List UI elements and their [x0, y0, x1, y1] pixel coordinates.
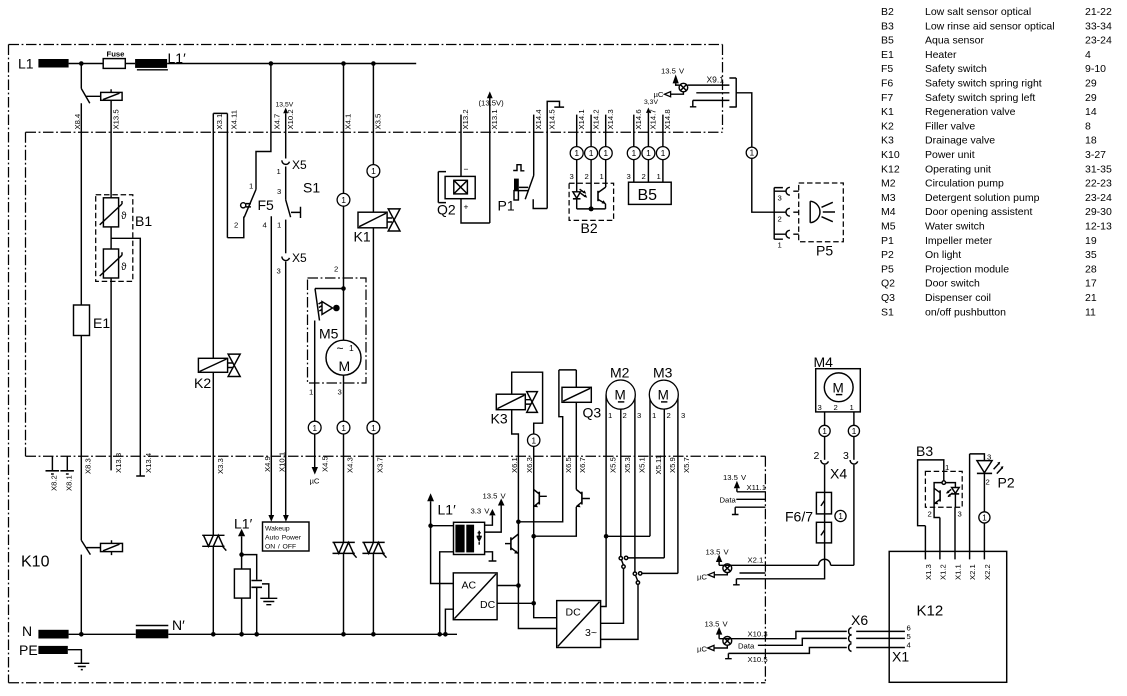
svg-text:P1: P1 — [498, 198, 515, 214]
changeover contact 1 — [619, 557, 622, 560]
LED in B2 — [573, 192, 581, 198]
svg-text:3: 3 — [277, 187, 281, 196]
svg-text:X10.2: X10.2 — [286, 109, 295, 129]
svg-text:1: 1 — [589, 148, 594, 158]
svg-text:1: 1 — [778, 241, 782, 250]
optical sensor B2 box — [569, 183, 614, 220]
K12 pin wires — [925, 454, 984, 560]
svg-text:23-24: 23-24 — [1085, 192, 1112, 204]
svg-text:3: 3 — [681, 411, 685, 420]
transformer L1' feed — [427, 493, 434, 501]
svg-text:3: 3 — [277, 267, 281, 276]
capacitor pair to ground — [239, 552, 244, 557]
svg-text:X13.2: X13.2 — [461, 109, 470, 129]
svg-text:X2.2: X2.2 — [983, 564, 992, 580]
svg-text:K12: K12 — [917, 603, 944, 620]
svg-text:M5: M5 — [319, 326, 339, 342]
svg-text:Impeller meter: Impeller meter — [925, 235, 993, 247]
svg-text:1: 1 — [349, 343, 354, 353]
junction dots on N rail — [79, 632, 84, 637]
svg-text:M: M — [833, 380, 844, 395]
svg-text:P2: P2 — [998, 475, 1015, 491]
junction dot M5 — [341, 286, 346, 291]
wire inverter output V — [601, 568, 624, 623]
svg-text:Water switch: Water switch — [925, 221, 985, 233]
node X3.1 X4.11 loop — [213, 113, 227, 358]
svg-text:X5: X5 — [292, 251, 307, 265]
optical sensor B2 columns — [577, 115, 606, 209]
svg-text:2: 2 — [986, 478, 990, 487]
connector pin mark P2 — [979, 512, 990, 523]
reference table — [881, 6, 1112, 318]
svg-text:1: 1 — [312, 423, 317, 433]
B3 LED — [952, 488, 960, 494]
filler valve coil K2 — [198, 358, 227, 372]
connector pin mark M5 pin3 — [337, 421, 350, 434]
svg-text:L1′: L1′ — [234, 516, 253, 532]
svg-text:X2.1: X2.1 — [968, 564, 977, 580]
svg-text:P2: P2 — [881, 249, 894, 261]
connector pin mark M4 right — [848, 425, 859, 436]
node 13.5 V output arrow — [485, 506, 502, 533]
svg-text:X5.3: X5.3 — [623, 457, 632, 473]
svg-text:Regeneration valve: Regeneration valve — [925, 106, 1016, 118]
svg-text:X6.7: X6.7 — [578, 457, 587, 473]
svg-text:Q3: Q3 — [583, 405, 602, 421]
svg-text:on/off pushbutton: on/off pushbutton — [925, 306, 1006, 318]
svg-text:3: 3 — [637, 411, 641, 420]
svg-text:−: − — [464, 164, 469, 174]
svg-text:X14.1: X14.1 — [577, 109, 586, 129]
K10 inner border horizontal upper — [26, 131, 723, 133]
svg-text:M3: M3 — [881, 192, 896, 204]
wire E1 to relay contact — [80, 336, 82, 541]
svg-text:N′: N′ — [172, 617, 185, 633]
connector pin mark X3.7 column — [367, 421, 380, 434]
svg-text:1: 1 — [277, 221, 281, 230]
terminal X8.2 — [51, 456, 53, 470]
svg-text:13.5 V: 13.5 V — [706, 548, 730, 557]
junction dot X6.1/ACDC — [516, 583, 521, 588]
B3 dashed box — [925, 471, 962, 507]
svg-text:2: 2 — [814, 450, 820, 462]
svg-text:14: 14 — [1085, 106, 1097, 118]
svg-text:3: 3 — [338, 388, 342, 397]
P5 pin 1 — [774, 233, 799, 235]
B3 phototransistor — [939, 490, 941, 501]
svg-text:L1′: L1′ — [168, 50, 187, 66]
breaker contact top (thermal cutout) — [81, 64, 100, 104]
svg-text:B3: B3 — [916, 443, 933, 459]
svg-text:21: 21 — [1085, 292, 1097, 304]
svg-text:(13.5V): (13.5V) — [479, 99, 505, 108]
svg-text:M4: M4 — [814, 354, 834, 370]
svg-text:X3.1: X3.1 — [215, 114, 224, 130]
svg-text:Q2: Q2 — [881, 278, 895, 290]
wire stub line at boundary — [740, 572, 766, 574]
svg-text:On light: On light — [925, 249, 961, 261]
svg-text:35: 35 — [1085, 249, 1097, 261]
wire B1 bottom to X13.3 — [110, 278, 112, 470]
svg-text:X3.5: X3.5 — [374, 114, 383, 130]
svg-text:X11.1: X11.1 — [747, 483, 767, 492]
svg-text:X5.5: X5.5 — [609, 457, 618, 473]
fuse F — [103, 59, 125, 69]
svg-text:X14.2: X14.2 — [592, 109, 601, 129]
svg-text:Safety switch spring left: Safety switch spring left — [925, 92, 1035, 104]
svg-text:Wakeup: Wakeup — [265, 526, 290, 533]
svg-text:X14.5: X14.5 — [548, 109, 557, 129]
svg-text:13.5 V: 13.5 V — [483, 492, 507, 501]
junction dot X6.3/Q3 right — [531, 534, 536, 539]
P2 emission arrows — [994, 463, 1003, 473]
junction dot X6.3/ACDC bottom — [531, 601, 536, 606]
svg-text:M2: M2 — [610, 365, 630, 381]
svg-text:12-13: 12-13 — [1085, 221, 1112, 233]
svg-text:µC: µC — [654, 90, 664, 99]
transistor T2 — [538, 492, 540, 505]
svg-text:X4.3: X4.3 — [346, 457, 355, 473]
svg-text:13.5 V: 13.5 V — [661, 67, 685, 76]
svg-text:3: 3 — [627, 172, 631, 181]
svg-text:L1′: L1′ — [438, 502, 457, 518]
svg-text:Door opening assistent: Door opening assistent — [925, 206, 1032, 218]
svg-text:X4.1: X4.1 — [344, 114, 353, 130]
wire X4 pin3 down — [853, 465, 855, 566]
svg-text:B3: B3 — [881, 20, 894, 32]
svg-text:N: N — [22, 623, 32, 639]
B3 pin1 loop — [918, 460, 944, 526]
svg-text:9-10: 9-10 — [1085, 63, 1106, 75]
svg-text:K1: K1 — [881, 106, 894, 118]
svg-text:2: 2 — [585, 172, 589, 181]
svg-text:1: 1 — [341, 423, 346, 433]
transformer power supply — [454, 522, 485, 554]
svg-text:Safety switch spring right: Safety switch spring right — [925, 78, 1042, 90]
wire transformer input — [431, 525, 454, 527]
wire Q2 loop to X13.1 — [461, 199, 490, 223]
svg-text:4: 4 — [1085, 49, 1091, 61]
svg-text:K2: K2 — [881, 120, 894, 132]
svg-text:AC: AC — [462, 580, 477, 592]
svg-text:ϑ: ϑ — [121, 262, 127, 273]
svg-text:X5.7: X5.7 — [682, 457, 691, 473]
svg-text:M: M — [658, 388, 669, 403]
svg-text:X4: X4 — [830, 466, 847, 482]
svg-text:X6: X6 — [851, 612, 868, 628]
connector pin mark on X3.5 column — [367, 165, 380, 178]
svg-text:M4: M4 — [881, 206, 896, 218]
svg-text:P5: P5 — [816, 243, 833, 259]
node 3.3 V output arrow — [485, 515, 493, 525]
resistor on L1' tap — [234, 569, 250, 598]
wire X6.1 down to DC/3 input — [518, 586, 556, 629]
P5 pin 2 — [774, 211, 799, 213]
K10 outer border bottom — [9, 682, 766, 684]
svg-text:1: 1 — [632, 148, 637, 158]
svg-text:2: 2 — [234, 221, 238, 230]
wire L1 rail — [69, 63, 417, 65]
svg-text:3~: 3~ — [585, 627, 597, 639]
regeneration valve coil K1 — [358, 212, 387, 228]
svg-text:X6.3: X6.3 — [525, 457, 534, 473]
svg-text:3: 3 — [570, 172, 574, 181]
projection module P5 box — [799, 183, 844, 242]
phototransistor B2 — [597, 191, 599, 201]
svg-text:X1.1: X1.1 — [954, 564, 963, 580]
svg-text:1: 1 — [852, 426, 857, 436]
svg-text:1: 1 — [945, 463, 949, 472]
converter AC/DC — [453, 573, 497, 620]
wire K3 top loop — [512, 372, 543, 434]
K10 inner border left — [25, 132, 27, 456]
svg-text:13.5 V: 13.5 V — [705, 619, 729, 628]
svg-text:X5.11: X5.11 — [654, 455, 663, 475]
connector pin marks B5 — [627, 147, 640, 160]
svg-text:F6: F6 — [881, 78, 893, 90]
svg-text:17: 17 — [1085, 278, 1097, 290]
node L1' terminal — [135, 59, 167, 68]
drainage valve coil K3 — [496, 394, 525, 410]
svg-text:F6/7: F6/7 — [785, 509, 813, 525]
thermistor B1 box — [96, 195, 133, 282]
wire Q3 to X6.3 junction — [534, 507, 577, 536]
svg-text:1: 1 — [657, 172, 661, 181]
svg-text:S1: S1 — [881, 306, 894, 318]
connector pin marks B2 — [570, 147, 583, 160]
svg-text:P5: P5 — [881, 263, 894, 275]
svg-text:K2: K2 — [194, 375, 211, 391]
wakeup module arrows — [268, 515, 274, 522]
svg-text:X5: X5 — [292, 158, 307, 172]
svg-text:X13.4: X13.4 — [144, 452, 153, 473]
node X14.5 T-termination — [547, 101, 564, 208]
triac on X4.3 column — [333, 542, 355, 553]
microswitch M5 — [315, 289, 344, 321]
svg-text:Q3: Q3 — [881, 292, 895, 304]
svg-text:3: 3 — [778, 194, 782, 203]
svg-text:X8.2: X8.2 — [50, 475, 59, 491]
K10 outer border top — [9, 44, 723, 46]
svg-text:X5.1: X5.1 — [638, 457, 647, 473]
on light P2 — [970, 454, 985, 461]
svg-text:1: 1 — [531, 435, 536, 445]
wire X8.4 column to E1 — [80, 103, 82, 305]
B3 junction circle — [942, 481, 946, 485]
svg-text:Drainage valve: Drainage valve — [925, 135, 995, 147]
valve symbol K3 — [527, 392, 538, 413]
svg-text:1: 1 — [750, 148, 755, 158]
K10 separator horizontal — [26, 455, 766, 457]
wire B1 middle junction to X13.4 — [111, 227, 145, 476]
svg-text:K1: K1 — [354, 229, 371, 245]
K10 outer border right upper — [722, 45, 724, 133]
svg-text:3.3 V: 3.3 V — [471, 507, 491, 516]
svg-text:29: 29 — [1085, 78, 1097, 90]
svg-text:X1: X1 — [892, 649, 909, 665]
dispenser coil Q3 — [562, 387, 591, 402]
svg-text:ON / OFF: ON / OFF — [265, 544, 296, 551]
svg-text:PE: PE — [19, 642, 38, 658]
wire AC/DC output bottom — [497, 602, 534, 604]
svg-text:29: 29 — [1085, 92, 1097, 104]
svg-text:X14.7: X14.7 — [649, 109, 658, 129]
svg-text:1: 1 — [608, 411, 612, 420]
svg-text:F7: F7 — [881, 92, 893, 104]
wire Q3 coil leg — [575, 370, 577, 490]
connector X5 lower — [282, 257, 290, 261]
relay contact K10 bottom — [81, 540, 100, 554]
wire N rail — [69, 633, 457, 635]
P5 pin 3 — [774, 190, 799, 192]
svg-text:Detergent solution pump: Detergent solution pump — [925, 192, 1040, 204]
svg-text:X6.1: X6.1 — [510, 457, 519, 473]
X9.1 pin 1 line — [688, 84, 730, 86]
wire AC/DC output top — [497, 585, 518, 587]
svg-text:X4.9: X4.9 — [263, 456, 272, 472]
junction dot inverter U — [604, 534, 609, 539]
wire F6/7 bottom to uC line — [733, 543, 825, 585]
group1 T stub line — [732, 507, 766, 514]
svg-text:Fuse: Fuse — [107, 50, 126, 59]
svg-text:Projection module: Projection module — [925, 263, 1009, 275]
svg-text:X8.4: X8.4 — [73, 113, 82, 130]
wire inverter output W — [601, 584, 638, 639]
wire inverter output U — [601, 536, 607, 606]
safety switch F6/7 box2 — [816, 522, 831, 543]
wire X3.5 column — [372, 64, 374, 213]
svg-text:3-27: 3-27 — [1085, 149, 1106, 161]
svg-text:Low rinse aid sensor optical: Low rinse aid sensor optical — [925, 20, 1055, 32]
wire transformer return to N — [440, 552, 454, 635]
svg-text:X6.5: X6.5 — [564, 457, 573, 473]
svg-text:Data: Data — [738, 641, 755, 650]
svg-text:Auto Power: Auto Power — [265, 535, 302, 542]
svg-text:1: 1 — [249, 182, 253, 191]
svg-text:Circulation pump: Circulation pump — [925, 178, 1004, 190]
P2 LED — [977, 461, 992, 473]
wire X4 pin2 to F6/7 — [824, 465, 826, 493]
svg-text:1: 1 — [850, 403, 854, 412]
wire X4.7 column — [256, 64, 271, 190]
svg-text:µC: µC — [697, 573, 707, 582]
svg-text:Heater: Heater — [925, 49, 957, 61]
svg-text:X10.5: X10.5 — [748, 655, 768, 664]
svg-text:2: 2 — [667, 411, 671, 420]
connector pin mark on X4.1 column — [337, 193, 350, 206]
K10 border right lower — [764, 456, 766, 683]
X9.1 pin 3 line with ground stub — [690, 100, 730, 106]
svg-text:Operating unit: Operating unit — [925, 163, 991, 175]
svg-text:K12: K12 — [881, 163, 900, 175]
svg-text:+: + — [464, 202, 469, 212]
connector pin mark M5 pin1 — [308, 421, 321, 434]
water switch M5 box — [308, 278, 367, 383]
svg-text:Safety switch: Safety switch — [925, 63, 987, 75]
svg-text:Filler valve: Filler valve — [925, 120, 975, 132]
svg-text:M: M — [615, 388, 626, 403]
svg-text:µC: µC — [310, 477, 320, 486]
svg-text:ϑ: ϑ — [121, 211, 127, 222]
valve symbol K1 — [388, 209, 400, 231]
svg-text:X13.5: X13.5 — [112, 109, 121, 129]
wire X10.5 bus line — [728, 648, 905, 654]
wire Q3 top — [559, 369, 576, 371]
svg-text:1: 1 — [309, 388, 313, 397]
wire X10.3 bus line — [719, 631, 905, 638]
svg-text:1: 1 — [982, 513, 987, 523]
B2 bottom rail — [577, 208, 606, 210]
connector pin mark M4 left — [819, 425, 830, 436]
aqua sensor B5 columns — [634, 113, 663, 182]
svg-text:1: 1 — [838, 511, 843, 521]
wire K3 coil bottom to X6.1 — [512, 410, 519, 586]
svg-text:3: 3 — [818, 403, 822, 412]
wire U to M3 pin1 — [606, 535, 650, 537]
svg-text:1: 1 — [603, 148, 608, 158]
group3 lamp — [723, 637, 732, 646]
svg-text:13.5 V: 13.5 V — [723, 473, 747, 482]
wire X13.5 column — [110, 104, 112, 198]
wire X6.3 column — [533, 446, 535, 603]
svg-text:X13.3: X13.3 — [114, 453, 123, 473]
svg-text:1: 1 — [371, 423, 376, 433]
group2 lamp — [723, 564, 732, 573]
svg-text:22-23: 22-23 — [1085, 178, 1112, 190]
svg-text:1: 1 — [652, 411, 656, 420]
svg-text:X4.7: X4.7 — [273, 114, 282, 130]
wire M4 pin1 — [853, 412, 855, 426]
svg-text:X3.7: X3.7 — [376, 457, 385, 473]
svg-text:X14.3: X14.3 — [606, 109, 615, 129]
svg-text:Dispenser coil: Dispenser coil — [925, 292, 991, 304]
svg-text:K3: K3 — [491, 411, 508, 427]
svg-text:E1: E1 — [93, 315, 110, 331]
svg-text:2: 2 — [623, 411, 627, 420]
svg-text:1: 1 — [341, 195, 346, 205]
svg-text:3: 3 — [843, 450, 849, 462]
ground symbol PE — [68, 650, 90, 670]
svg-text:1: 1 — [277, 167, 281, 176]
wire M5 pin3 — [343, 375, 345, 421]
svg-text:K10: K10 — [21, 554, 50, 571]
contact P1 — [525, 176, 534, 200]
svg-text:1: 1 — [574, 148, 579, 158]
svg-text:X14.4: X14.4 — [534, 109, 543, 130]
wire M4 pin3 — [824, 412, 826, 426]
svg-text:31-35: 31-35 — [1085, 163, 1112, 175]
svg-text:Door switch: Door switch — [925, 278, 980, 290]
junction dot X6.1/Q3 left — [516, 520, 521, 525]
B3 emission arrows — [947, 489, 953, 496]
wire AC/DC input 2 — [445, 609, 453, 634]
svg-text:M2: M2 — [881, 178, 896, 190]
valve symbol K2 — [228, 354, 240, 376]
wire P1 to X14.5 — [533, 199, 547, 208]
svg-text:X1.3: X1.3 — [924, 564, 933, 580]
svg-text:P1: P1 — [881, 235, 894, 247]
svg-text:µC: µC — [697, 645, 707, 654]
svg-text:K10: K10 — [881, 149, 900, 161]
svg-text:18: 18 — [1085, 135, 1097, 147]
heater E1 — [74, 305, 90, 336]
svg-text:2: 2 — [334, 265, 338, 274]
svg-text:21-22: 21-22 — [1085, 6, 1112, 18]
transistor T3 — [581, 492, 583, 505]
ground stub at transformer — [485, 552, 497, 561]
connector pin mark on P5 wire — [746, 147, 757, 158]
svg-text:Q2: Q2 — [437, 202, 456, 218]
